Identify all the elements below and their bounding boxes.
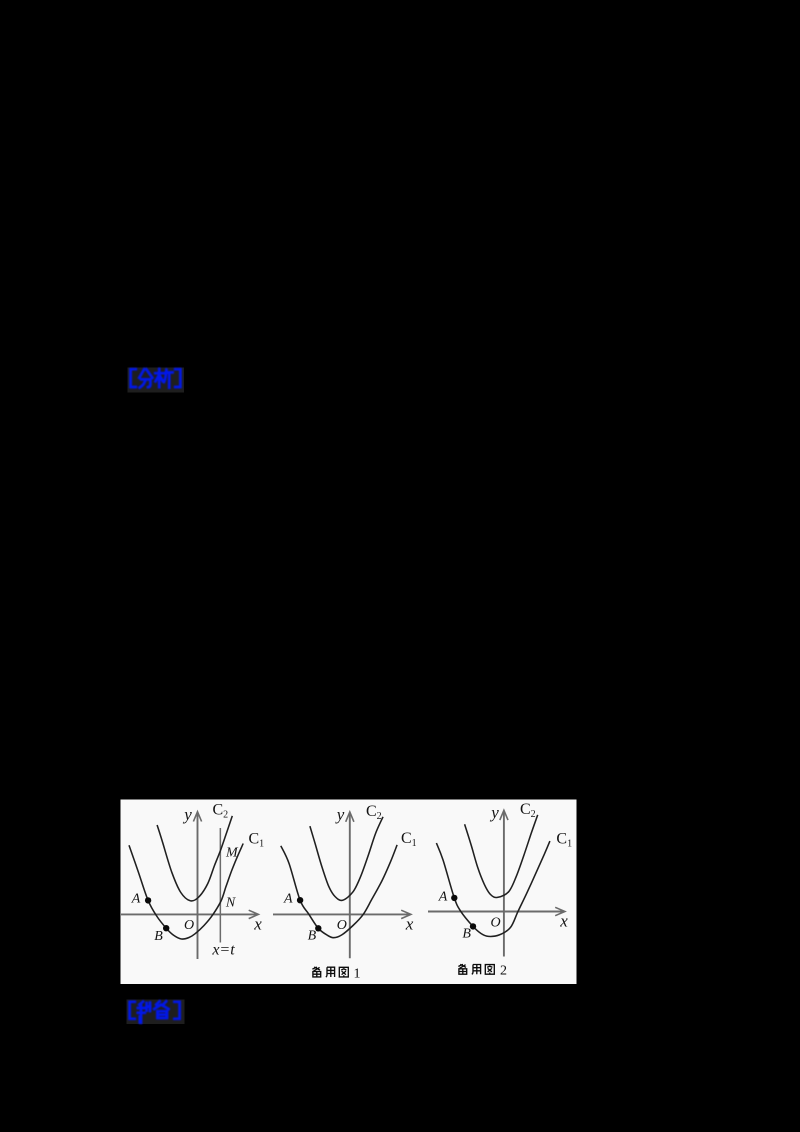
svg-text:O: O <box>337 918 347 933</box>
g1 point B <box>163 925 169 931</box>
g2 y arrowhead <box>346 812 354 822</box>
blue char xi <box>155 369 172 388</box>
g3 y-axis <box>503 812 505 957</box>
g1 point A <box>145 897 151 903</box>
svg-text:x: x <box>253 914 262 933</box>
g3 curve C1 <box>436 841 550 936</box>
g3 curve C2 <box>465 815 538 898</box>
svg-text:x: x <box>405 914 414 933</box>
g2 curve C2 <box>310 817 383 901</box>
blue bracket open <box>130 1002 135 1019</box>
caption2 glyph yong <box>472 965 481 975</box>
blue bracket open <box>131 369 136 387</box>
svg-text:x: x <box>559 912 568 931</box>
svg-text:B: B <box>154 929 163 944</box>
g1 curve C2 <box>157 816 232 901</box>
g3 caption 备用图2 <box>458 964 494 974</box>
g2 x-axis <box>273 913 409 915</box>
caption2 glyph bei <box>458 964 466 974</box>
label 2: blue 【解答】 <box>130 1001 180 1023</box>
g3 x-axis <box>428 911 563 913</box>
svg-text:O: O <box>184 918 194 933</box>
caption1 glyph tu <box>339 967 348 977</box>
blue bracket close <box>174 1002 179 1019</box>
caption1 glyph yong <box>326 967 335 977</box>
svg-text:B: B <box>308 928 317 943</box>
g2 caption 备用图1 <box>312 967 348 977</box>
g1 x arrowhead <box>249 910 259 918</box>
svg-text:A: A <box>283 891 293 906</box>
g1 y-axis <box>197 814 199 960</box>
g3 point B <box>470 923 476 929</box>
blue char fen <box>139 369 152 387</box>
g2 y-axis <box>349 814 351 959</box>
svg-text:O: O <box>490 915 500 930</box>
svg-text:y: y <box>489 803 499 822</box>
label 1 backdrop <box>128 368 185 393</box>
g2 labels <box>283 803 417 944</box>
svg-text:1: 1 <box>354 966 361 981</box>
white figure panel <box>121 800 577 985</box>
label 1: blue 【分析】 <box>131 369 181 388</box>
svg-text:A: A <box>438 890 448 905</box>
g1 labels <box>131 802 264 959</box>
blue bracket close <box>175 369 180 387</box>
svg-text:y: y <box>182 805 192 824</box>
g2 curve C1 <box>281 845 397 938</box>
g1 line x=t <box>219 828 221 943</box>
caption2 glyph tu <box>485 965 494 975</box>
svg-text:y: y <box>335 805 345 824</box>
svg-text:2: 2 <box>500 964 507 979</box>
svg-text:N: N <box>225 896 236 911</box>
g1 curve C1 <box>129 844 243 940</box>
g3 y arrowhead <box>500 810 508 820</box>
g3 point A <box>451 895 457 901</box>
blue char jie <box>138 1002 150 1023</box>
g2 point A <box>297 897 303 903</box>
g1 y arrowhead <box>193 812 201 822</box>
label 2 backdrop <box>127 1000 185 1025</box>
svg-text:B: B <box>462 927 471 942</box>
g2 x arrowhead <box>401 910 411 918</box>
svg-text:A: A <box>131 892 141 907</box>
svg-text:x=t: x=t <box>211 941 235 958</box>
svg-text:M: M <box>225 846 239 861</box>
g1 x-axis <box>121 913 257 915</box>
g3 labels <box>438 801 572 941</box>
g2 point B <box>315 925 321 931</box>
blue char da <box>154 1001 168 1018</box>
caption1 glyph bei <box>312 967 320 977</box>
g3 x arrowhead <box>555 907 565 915</box>
